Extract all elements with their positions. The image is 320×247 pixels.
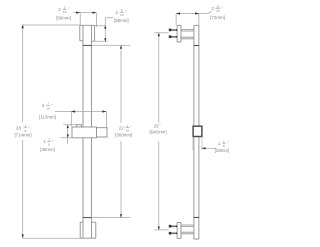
svg-text:25: 25 — [154, 124, 159, 129]
svg-text:″: ″ — [68, 7, 70, 11]
svg-text:″: ″ — [131, 126, 133, 130]
svg-text:[560mm]: [560mm] — [115, 132, 132, 137]
svg-text:″: ″ — [28, 126, 30, 130]
svg-text:1: 1 — [25, 124, 27, 128]
svg-text:″: ″ — [159, 124, 161, 128]
svg-text:″: ″ — [51, 103, 53, 107]
svg-text:[58mm]: [58mm] — [114, 18, 129, 23]
svg-text:22: 22 — [119, 125, 124, 130]
svg-text:[113mm]: [113mm] — [39, 114, 56, 119]
svg-text:16: 16 — [46, 106, 50, 110]
svg-text:1: 1 — [43, 139, 46, 144]
svg-text:″: ″ — [227, 141, 229, 145]
svg-text:3: 3 — [64, 5, 66, 9]
svg-text:1: 1 — [127, 124, 129, 128]
svg-text:[714mm]: [714mm] — [14, 133, 31, 138]
svg-text:16: 16 — [63, 10, 67, 14]
svg-text:[35mm]: [35mm] — [40, 147, 55, 152]
svg-text:″: ″ — [125, 10, 127, 14]
svg-text:4: 4 — [42, 103, 45, 108]
svg-text:5: 5 — [121, 8, 123, 12]
svg-text:1: 1 — [218, 141, 221, 146]
svg-text:[72mm]: [72mm] — [210, 15, 225, 20]
svg-text:[640mm]: [640mm] — [149, 130, 166, 135]
svg-text:[56mm]: [56mm] — [56, 15, 71, 20]
svg-text:″: ″ — [221, 6, 223, 10]
svg-text:″: ″ — [52, 140, 54, 144]
svg-text:13: 13 — [216, 4, 220, 8]
svg-text:28: 28 — [16, 126, 21, 131]
svg-text:16: 16 — [216, 9, 220, 13]
svg-text:2: 2 — [211, 6, 214, 11]
svg-text:16: 16 — [120, 13, 124, 17]
svg-text:[28mm]: [28mm] — [215, 148, 230, 153]
svg-text:1: 1 — [223, 139, 225, 143]
svg-text:2: 2 — [58, 7, 61, 12]
svg-text:3: 3 — [48, 138, 50, 142]
svg-text:2: 2 — [115, 10, 118, 15]
svg-text:7: 7 — [47, 102, 49, 106]
